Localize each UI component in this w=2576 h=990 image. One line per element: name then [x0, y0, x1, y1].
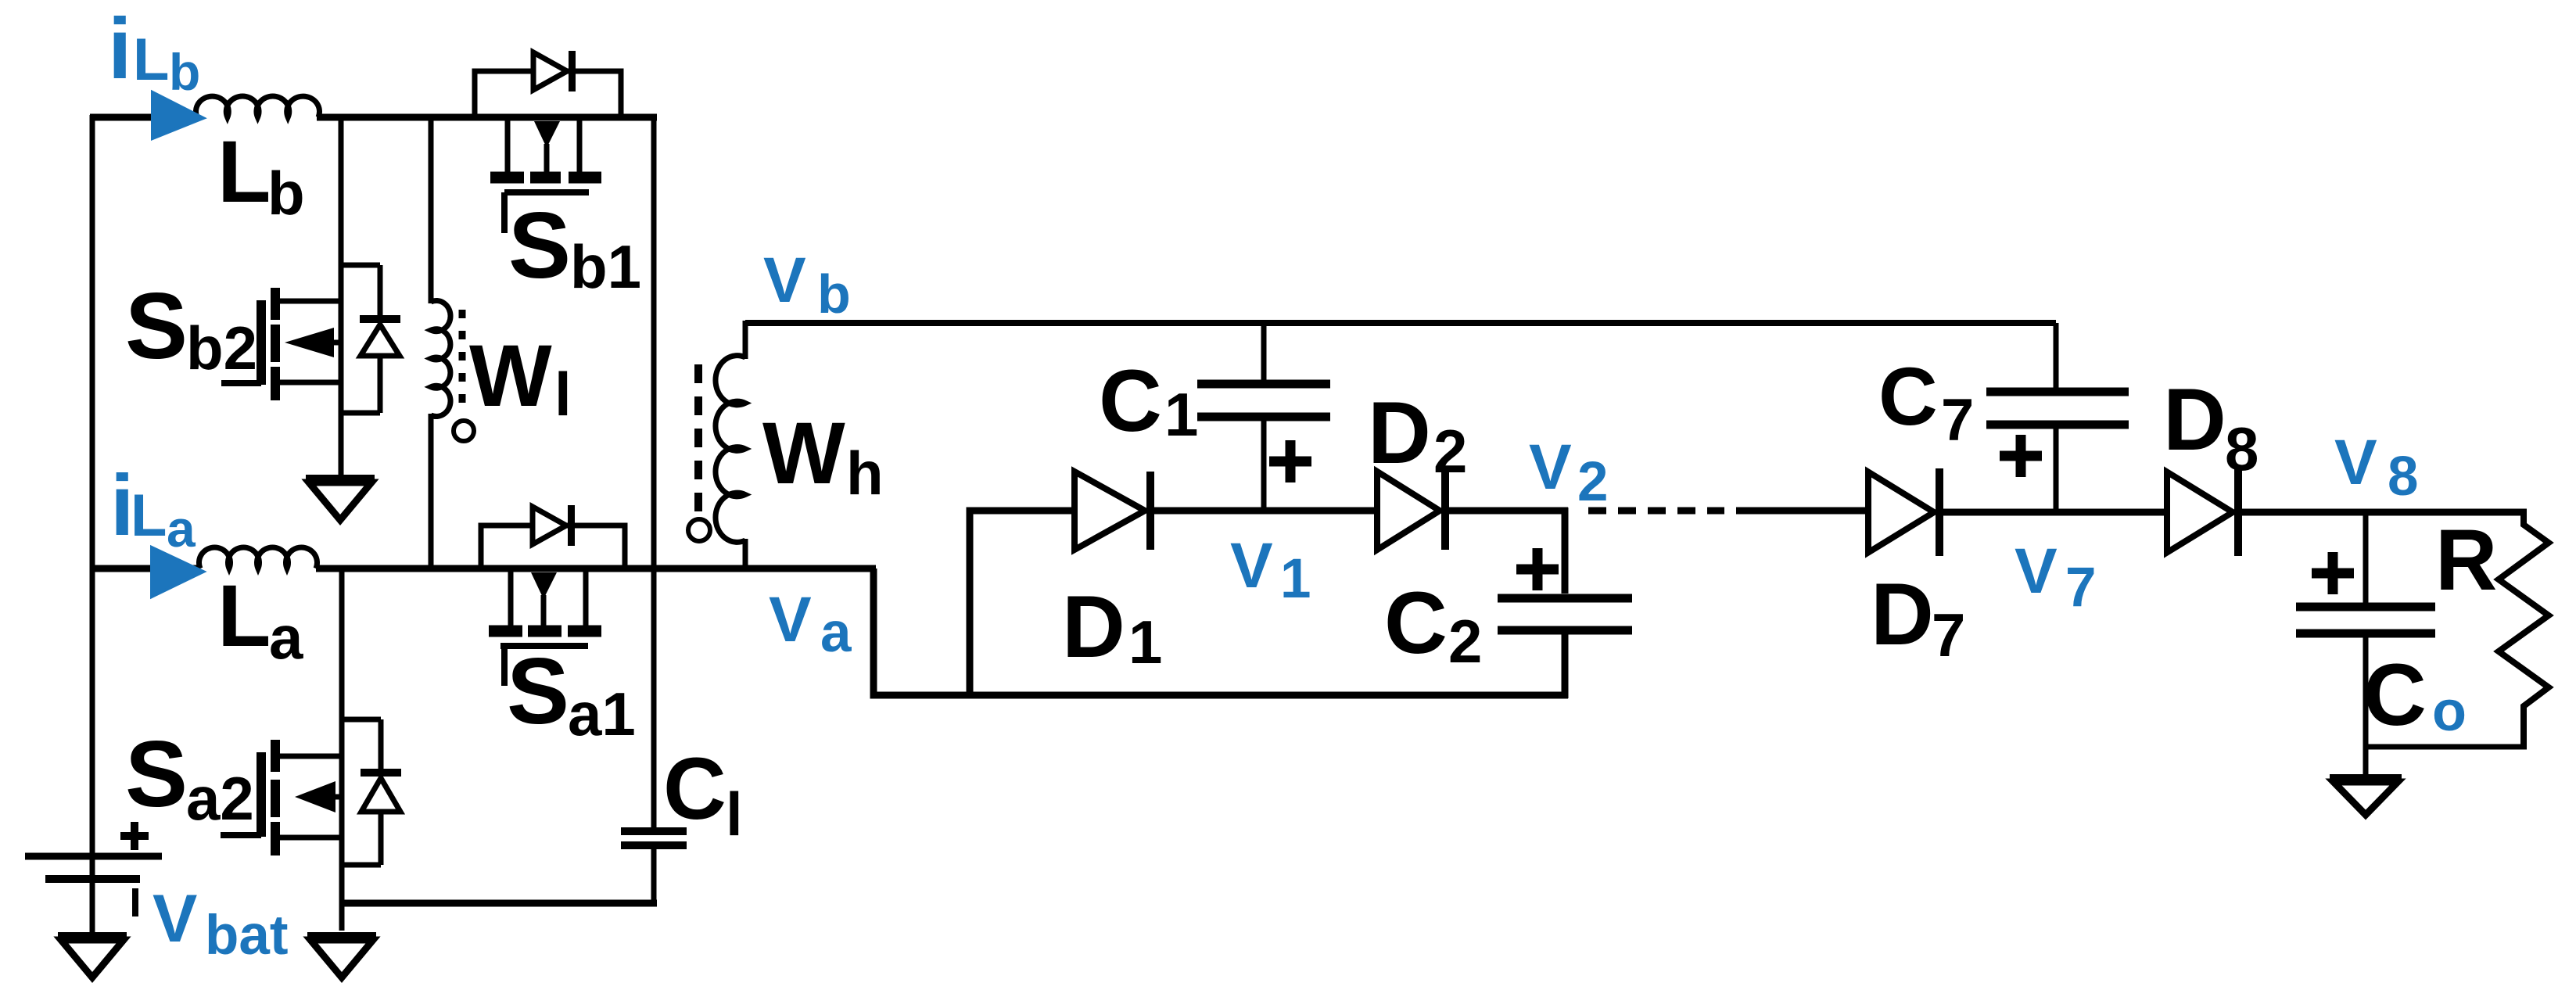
- svg-text:D: D: [1368, 384, 1431, 482]
- svg-text:V: V: [769, 584, 812, 655]
- battery Vbat: [25, 856, 162, 879]
- svg-text:o: o: [2432, 680, 2467, 743]
- node V8 label: [2334, 427, 2419, 508]
- label Sb2: [125, 274, 257, 382]
- svg-text:C: C: [1878, 351, 1938, 443]
- label C1: [1099, 352, 1198, 450]
- svg-text:i: i: [108, 1, 132, 97]
- transistor Sa2 (MOSFET): [221, 740, 342, 855]
- capacitor Cl: [621, 831, 687, 845]
- label Va: [769, 584, 852, 664]
- svg-text:bat: bat: [205, 905, 289, 967]
- wire: node Vb rail: [745, 320, 2056, 326]
- svg-text:C: C: [663, 740, 727, 838]
- diode D1: [1075, 472, 1150, 550]
- label Wl: [469, 327, 572, 429]
- svg-text:l: l: [554, 360, 572, 429]
- wire: input-stage right bus: [651, 114, 657, 831]
- label Sa1: [507, 639, 636, 748]
- wire: Sa1 diode loop: [481, 525, 625, 567]
- plus of C1: [1269, 440, 1311, 482]
- diode D8: [2167, 468, 2238, 556]
- svg-text:L: L: [133, 27, 169, 93]
- svg-text:a: a: [269, 603, 303, 672]
- label Sb1: [508, 193, 641, 301]
- wire: Vb corner to C7: [2054, 323, 2059, 392]
- wire: C7 bottom lead: [2054, 425, 2059, 512]
- battery plus: [120, 822, 149, 850]
- ground: battery: [58, 936, 127, 977]
- wire: Co bottom lead: [2363, 633, 2369, 775]
- label D2: [1368, 384, 1467, 486]
- winding Wh: [716, 356, 745, 543]
- svg-text:V: V: [2015, 536, 2058, 607]
- polarity dot Wh: [688, 519, 710, 541]
- wire: output bottom: [2366, 744, 2527, 750]
- winding Wl: [431, 301, 450, 417]
- svg-text:V: V: [1230, 530, 1273, 601]
- svg-text:a: a: [820, 602, 852, 664]
- svg-text:V: V: [1529, 432, 1572, 503]
- ground: output: [2330, 778, 2402, 815]
- current arrow iLb: [152, 92, 203, 138]
- label C2: [1384, 574, 1482, 676]
- inductor Lb: [196, 96, 320, 117]
- capacitor C7: [1986, 392, 2129, 425]
- capacitor Co: [2296, 607, 2435, 633]
- svg-text:1: 1: [1280, 548, 1311, 610]
- wire: phase-a rail: [90, 565, 876, 572]
- ground: below Sb2: [306, 469, 375, 520]
- body diode of Sa2: [342, 719, 401, 865]
- svg-text:V: V: [763, 245, 806, 316]
- svg-text:b: b: [817, 264, 851, 325]
- svg-text:V: V: [2334, 427, 2377, 498]
- svg-text:a1: a1: [568, 680, 636, 748]
- wire: Cl bottom lead: [651, 845, 657, 906]
- capacitor C1: [1197, 323, 1330, 511]
- svg-text:L: L: [217, 123, 271, 221]
- current arrow iLa: [152, 547, 203, 597]
- diode of Sa1 loop: [533, 505, 572, 546]
- svg-text:8: 8: [2388, 446, 2419, 508]
- svg-text:S: S: [508, 193, 571, 298]
- svg-text:W: W: [762, 404, 845, 502]
- svg-text:a: a: [167, 500, 196, 558]
- svg-text:D: D: [1871, 565, 1934, 663]
- svg-text:V: V: [152, 881, 197, 956]
- svg-text:7: 7: [1941, 387, 1974, 454]
- wire: phase-b top rail: [90, 114, 657, 121]
- svg-text:l: l: [726, 780, 743, 848]
- inductor La: [199, 547, 318, 569]
- svg-text:b2: b2: [186, 314, 257, 382]
- svg-text:h: h: [846, 439, 884, 508]
- svg-text:S: S: [507, 639, 569, 744]
- plus of C7: [2000, 435, 2042, 477]
- body diode of Sb2: [341, 265, 400, 413]
- label iLa: [110, 457, 196, 558]
- wire: V1 node: [1146, 508, 1377, 515]
- label Wh: [762, 404, 884, 508]
- svg-text:C: C: [1099, 352, 1162, 450]
- wire: D2 to V2: [1441, 508, 1568, 515]
- svg-text:2: 2: [1577, 451, 1609, 513]
- label Co: [2363, 646, 2467, 744]
- svg-text:S: S: [125, 274, 188, 378]
- wire: Sb1 diode loop: [475, 71, 621, 119]
- svg-text:2: 2: [1433, 417, 1467, 486]
- wire: Sb2 drain drop: [339, 117, 344, 306]
- svg-text:1: 1: [1164, 380, 1198, 449]
- wire: V2 drop: [1562, 508, 1569, 594]
- svg-text:D: D: [1062, 578, 1125, 676]
- label D1: [1062, 578, 1162, 676]
- svg-text:D: D: [2163, 371, 2226, 468]
- wire: V8 node: [2234, 509, 2527, 516]
- wire: left vertical bus: [90, 115, 95, 936]
- label iLb: [108, 1, 200, 101]
- core line of Wh (dashed): [694, 364, 702, 511]
- battery minus tick: [132, 888, 138, 916]
- wire: C2 bottom lead: [1562, 630, 1569, 698]
- label C7: [1878, 351, 1974, 454]
- wire: D1 anode riser: [970, 511, 1078, 695]
- node V2 label: [1529, 432, 1609, 513]
- wire: V7 node: [1936, 509, 2170, 516]
- label D7: [1871, 565, 1965, 669]
- label Lb: [217, 123, 305, 228]
- transistor Sb1 (MOSFET): [490, 117, 601, 233]
- svg-text:7: 7: [2065, 557, 2097, 619]
- wire: to D7: [1736, 508, 1871, 515]
- transistor Sa1 (MOSFET): [489, 569, 601, 686]
- capacitor C2: [1498, 598, 1632, 630]
- wire: omitted stages (dashed): [1588, 508, 1724, 515]
- svg-text:7: 7: [1932, 601, 1965, 669]
- plus of C2: [1516, 548, 1559, 590]
- svg-text:W: W: [469, 327, 552, 425]
- ground: below Sa2: [307, 936, 376, 977]
- diode D2: [1377, 472, 1445, 550]
- wire: node Va step: [874, 569, 1568, 695]
- wire: Wh top lead: [743, 321, 748, 359]
- resistor R: [2499, 511, 2549, 747]
- wire: Wl top lead: [429, 117, 434, 303]
- label D8: [2163, 371, 2258, 483]
- wire: Sa2 drain drop / source bus: [339, 569, 345, 931]
- svg-text:b: b: [267, 159, 305, 228]
- label Vbat: [152, 881, 289, 967]
- wire: Wl bottom lead: [429, 414, 434, 572]
- label La: [217, 567, 303, 672]
- node V7 label: [2015, 536, 2097, 619]
- node V1 label: [1230, 530, 1311, 610]
- svg-text:L: L: [217, 567, 271, 665]
- svg-text:8: 8: [2225, 414, 2258, 483]
- diode D7: [1868, 468, 1939, 556]
- svg-text:b: b: [169, 43, 200, 101]
- transistor Sb2 (MOSFET): [221, 288, 341, 475]
- svg-text:L: L: [131, 482, 167, 549]
- svg-text:a2: a2: [186, 764, 254, 833]
- plus of Co: [2312, 552, 2354, 594]
- svg-text:C: C: [2363, 646, 2427, 744]
- wire: Wh bottom lead: [743, 539, 748, 572]
- svg-text:S: S: [125, 722, 188, 827]
- svg-text:b1: b1: [570, 232, 641, 301]
- label Cl: [663, 740, 743, 848]
- label Vb: [763, 245, 851, 325]
- diode of Sb1 loop: [533, 51, 572, 91]
- svg-text:2: 2: [1448, 607, 1482, 676]
- wire: V8 drop: [2363, 512, 2369, 607]
- svg-text:R: R: [2435, 512, 2497, 608]
- label R: [2435, 512, 2497, 608]
- label Sa2: [125, 722, 254, 833]
- polarity dot Wl: [454, 421, 474, 441]
- core line of Wl (dashed): [459, 310, 466, 405]
- svg-text:1: 1: [1128, 608, 1162, 676]
- svg-text:C: C: [1384, 574, 1448, 672]
- wire: bottom rail (Sa2 to Cl): [342, 900, 657, 907]
